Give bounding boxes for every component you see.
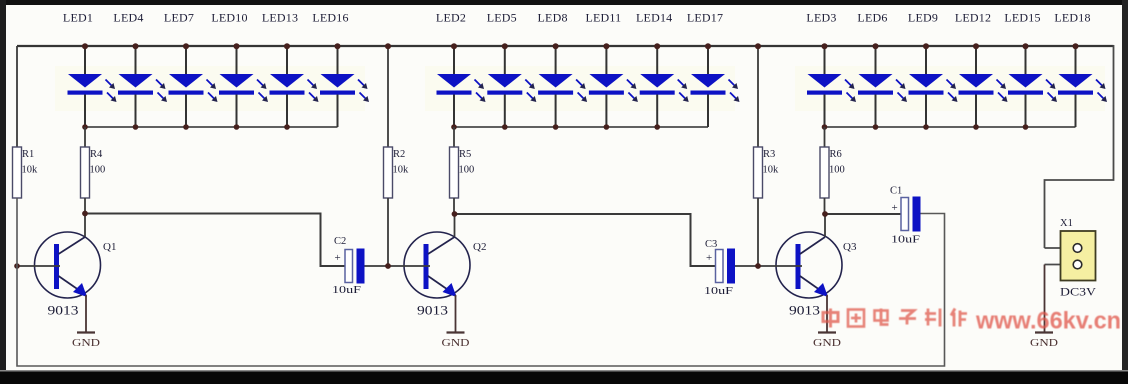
svg-text:LED7: LED7 <box>164 11 194 25</box>
svg-text:LED9: LED9 <box>908 11 938 25</box>
wire LED cathode rail group 3 <box>825 126 1076 128</box>
ground GND Q3 emitter <box>813 333 841 350</box>
svg-text:10uF: 10uF <box>891 234 920 246</box>
svg-text:LED6: LED6 <box>857 11 887 25</box>
LED LED10 <box>211 11 268 130</box>
svg-text:10uF: 10uF <box>332 284 361 296</box>
wire LED cathode rail group 2 <box>454 126 708 128</box>
LED LED8 <box>538 11 588 130</box>
svg-text:GND: GND <box>813 338 841 349</box>
svg-text:C3: C3 <box>705 239 717 250</box>
ground GND Q1 emitter <box>72 333 100 350</box>
svg-text:C1: C1 <box>890 186 902 197</box>
transistor Q3 9013 <box>776 214 857 333</box>
svg-text:GND: GND <box>1030 338 1058 349</box>
resistor R6 100 <box>820 127 845 214</box>
svg-text:R2: R2 <box>393 149 405 160</box>
svg-text:LED15: LED15 <box>1004 11 1040 25</box>
resistor R5 100 <box>450 127 475 214</box>
LED LED1 <box>63 11 117 130</box>
svg-text:Q3: Q3 <box>843 241 857 253</box>
ground GND battery <box>1030 333 1058 350</box>
svg-text:+: + <box>335 252 341 264</box>
svg-text:LED17: LED17 <box>687 11 723 25</box>
LED LED17 <box>687 11 740 128</box>
svg-text:100: 100 <box>459 165 475 176</box>
svg-text:LED11: LED11 <box>585 11 621 25</box>
svg-text:R6: R6 <box>830 149 842 160</box>
capacitor C3 10uF <box>704 239 735 297</box>
svg-text:LED10: LED10 <box>211 11 247 25</box>
svg-text:GND: GND <box>442 338 470 349</box>
svg-text:9013: 9013 <box>417 303 448 318</box>
LED LED18 <box>1054 11 1107 128</box>
svg-text:www.66kv.cn: www.66kv.cn <box>975 308 1121 335</box>
LED LED7 <box>164 11 218 130</box>
LED LED9 <box>908 11 958 130</box>
wire Q1 base node <box>17 265 60 267</box>
svg-text:LED1: LED1 <box>63 11 93 25</box>
wire LED cathode rail group 1 <box>85 126 338 128</box>
svg-text:LED16: LED16 <box>312 11 348 25</box>
svg-text:10k: 10k <box>22 165 39 176</box>
svg-text:100: 100 <box>829 165 845 176</box>
svg-text:LED14: LED14 <box>636 11 672 25</box>
LED LED4 <box>113 11 167 130</box>
LED LED3 <box>806 11 856 130</box>
wire Q2 base node <box>364 265 430 267</box>
svg-text:R3: R3 <box>763 149 775 160</box>
capacitor C2 10uF <box>332 236 365 296</box>
svg-text:LED3: LED3 <box>806 11 836 25</box>
watermark www.66kv.cn <box>0 0 1 1</box>
svg-text:GND: GND <box>72 338 100 349</box>
LED LED2 <box>436 11 486 130</box>
LED LED13 <box>262 11 319 130</box>
svg-text:R5: R5 <box>459 149 471 160</box>
svg-text:Q2: Q2 <box>473 241 486 253</box>
connector X1 DC3V battery <box>1045 218 1097 333</box>
svg-text:LED4: LED4 <box>113 11 143 25</box>
wire C1 feedback to Q1 base <box>17 198 945 366</box>
svg-text:R1: R1 <box>22 149 34 160</box>
svg-text:X1: X1 <box>1060 218 1073 229</box>
capacitor C1 10uF <box>890 186 921 246</box>
svg-text:9013: 9013 <box>789 303 820 318</box>
svg-text:10k: 10k <box>393 165 410 176</box>
svg-text:C2: C2 <box>334 236 346 247</box>
svg-text:+: + <box>706 252 712 264</box>
wire battery positive feed <box>1045 45 1114 248</box>
LED LED5 <box>487 11 537 130</box>
wire Q2 collector to C3 <box>455 214 716 266</box>
LED LED14 <box>636 11 689 130</box>
svg-text:LED13: LED13 <box>262 11 298 25</box>
svg-text:R4: R4 <box>90 149 103 160</box>
wire Q1 collector to C2 <box>85 214 345 267</box>
LED LED16 <box>312 11 369 128</box>
ground GND Q2 emitter <box>442 333 470 350</box>
svg-text:+: + <box>892 202 898 214</box>
resistor R1 10k <box>13 46 39 198</box>
transistor Q1 9013 <box>35 214 117 333</box>
svg-text:10uF: 10uF <box>704 285 733 297</box>
svg-text:10k: 10k <box>763 165 780 176</box>
svg-text:LED5: LED5 <box>487 11 517 25</box>
resistor R4 100 <box>81 127 106 214</box>
wire Q3 base node <box>735 265 803 267</box>
LED LED12 <box>955 11 1008 130</box>
svg-text:LED2: LED2 <box>436 11 466 25</box>
resistor R2 10k <box>384 43 410 266</box>
wire +3V top power rail <box>17 45 1114 47</box>
LED LED15 <box>1004 11 1057 130</box>
svg-text:9013: 9013 <box>48 303 79 318</box>
resistor R3 10k <box>754 43 780 266</box>
svg-text:DC3V: DC3V <box>1060 285 1096 299</box>
svg-text:LED18: LED18 <box>1054 11 1090 25</box>
LED LED11 <box>585 11 637 130</box>
wire Q3 collector to C1 <box>825 213 901 215</box>
svg-text:LED12: LED12 <box>955 11 991 25</box>
svg-text:Q1: Q1 <box>103 241 116 253</box>
LED LED6 <box>857 11 907 130</box>
svg-text:100: 100 <box>90 165 106 176</box>
svg-text:LED8: LED8 <box>538 11 568 25</box>
transistor Q2 9013 <box>404 214 486 333</box>
